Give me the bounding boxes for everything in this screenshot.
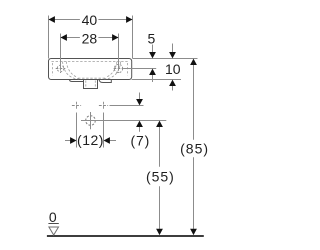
svg-text:(85): (85) [180, 141, 209, 157]
washbasin outline [49, 59, 132, 80]
drain box hidden edges [86, 81, 96, 89]
extension line 40 left [48, 16, 50, 59]
svg-text:(12): (12) [77, 132, 104, 148]
svg-text:10: 10 [165, 61, 181, 77]
dimension 40 arrow right [126, 16, 132, 23]
dimension 28 line [61, 37, 119, 39]
dimension 5 upper arrow [152, 45, 154, 53]
extension line 12 left [76, 113, 78, 148]
tap axis extension line [123, 68, 156, 70]
dimension 10 lower arrow [172, 86, 174, 91]
underside recess right [99, 80, 111, 83]
dimension 12 arrow left [70, 137, 76, 144]
svg-text:0: 0 [49, 209, 57, 225]
drain axis extension right [81, 120, 166, 122]
bowl hidden contour left inner [66, 62, 77, 78]
dimension 85 arrow top [190, 59, 197, 65]
basin bottom edge extension to right [132, 79, 181, 81]
dimension 85 line lower [193, 157, 195, 229]
mounting hole axis extension right [110, 105, 144, 107]
dimension 7 upper arrow [139, 93, 141, 100]
basin top edge extension to right [133, 58, 198, 60]
drain outlet circle dashed [86, 116, 96, 126]
extension line 12 right [103, 113, 105, 148]
drain box under basin [84, 80, 98, 89]
zero level triangle marker [49, 227, 59, 235]
svg-text:5: 5 [148, 31, 156, 47]
dimension 12 line left [65, 140, 71, 142]
mounting hole cross left [72, 102, 81, 110]
tap hole cross left [56, 64, 66, 73]
bowl hidden contour right outer [104, 62, 121, 79]
zero level underline [48, 223, 58, 225]
dimension 55 arrow bottom [156, 229, 163, 235]
bowl hidden contour left outer [63, 62, 80, 79]
mounting hole cross right [99, 102, 108, 110]
dimension 28 arrow left [61, 34, 67, 41]
tap hole cross right [114, 64, 124, 73]
underside recess left [69, 80, 83, 82]
dimension 55 arrow top [156, 121, 163, 127]
dimension 40 arrow left [49, 16, 55, 23]
svg-text:(55): (55) [146, 169, 175, 185]
dimension 85 line upper [193, 65, 195, 140]
floor line [47, 235, 204, 237]
bowl hidden contour right inner [106, 62, 117, 78]
extension line 28 left [60, 34, 62, 69]
dimension 10 upper arrow [172, 44, 174, 53]
dimension 85 arrow bottom [190, 229, 197, 235]
svg-text:28: 28 [82, 31, 98, 47]
dimension 5 lower arrow [152, 75, 154, 82]
dimension 55 line upper [159, 127, 161, 167]
extension line 40 right [132, 16, 134, 59]
basin inner rim right edge dashed [127, 63, 129, 76]
dimension 40 line [49, 19, 133, 21]
drain outlet cross vertical [90, 112, 92, 129]
dimension 12 line right [110, 140, 117, 142]
svg-text:(7): (7) [131, 132, 151, 148]
dimension 55 line lower [159, 186, 161, 229]
bowl hidden contour bottom [78, 77, 105, 79]
dimension 12 arrow right [104, 137, 110, 144]
dimension 28 arrow right [112, 34, 118, 41]
dimension 7 lower arrow [139, 127, 141, 132]
basin inner rim left edge dashed [52, 63, 54, 76]
extension line 28 right [118, 34, 120, 69]
svg-text:40: 40 [82, 12, 98, 28]
basin inner rim dashed line [52, 61, 129, 63]
